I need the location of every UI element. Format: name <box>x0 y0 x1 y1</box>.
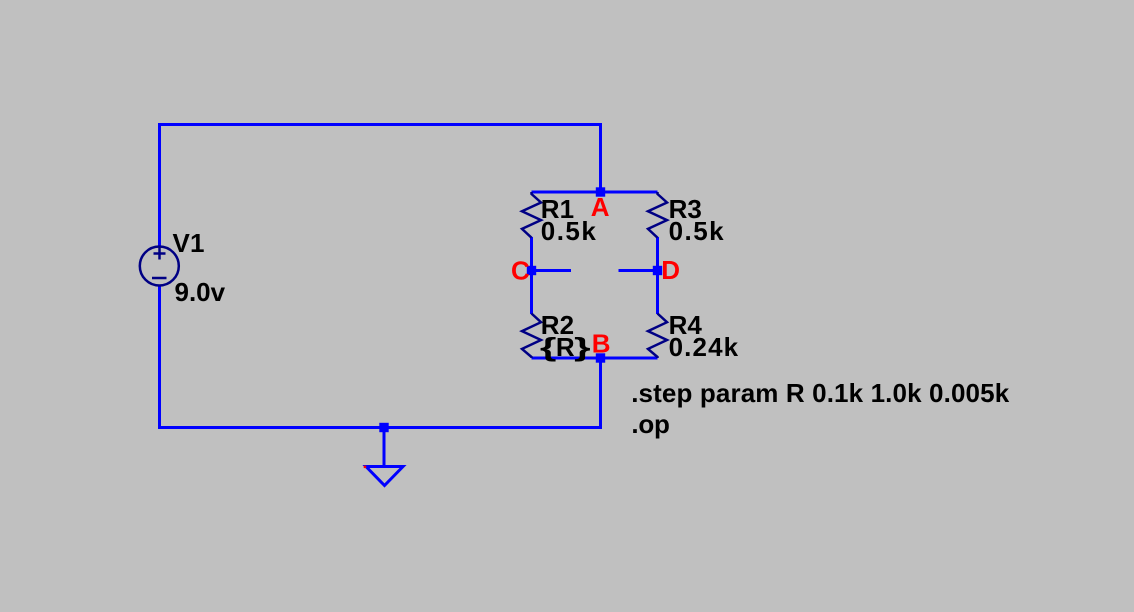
svg-text:.op: .op <box>631 409 670 439</box>
svg-text:D: D <box>661 255 680 285</box>
svg-text:}: } <box>574 333 591 362</box>
svg-text:{: { <box>540 333 557 362</box>
svg-text:9.0v: 9.0v <box>175 277 226 307</box>
svg-text:A: A <box>591 192 610 222</box>
svg-text:V1: V1 <box>173 228 205 258</box>
svg-text:.step param R 0.1k 1.0k 0.005k: .step param R 0.1k 1.0k 0.005k <box>631 378 1010 408</box>
svg-text:0.5k: 0.5k <box>541 216 597 246</box>
svg-text:R: R <box>556 332 575 362</box>
svg-text:C: C <box>511 256 530 286</box>
svg-text:B: B <box>592 329 611 359</box>
svg-text:0.24k: 0.24k <box>669 332 739 362</box>
svg-text:0.5k: 0.5k <box>669 216 725 246</box>
